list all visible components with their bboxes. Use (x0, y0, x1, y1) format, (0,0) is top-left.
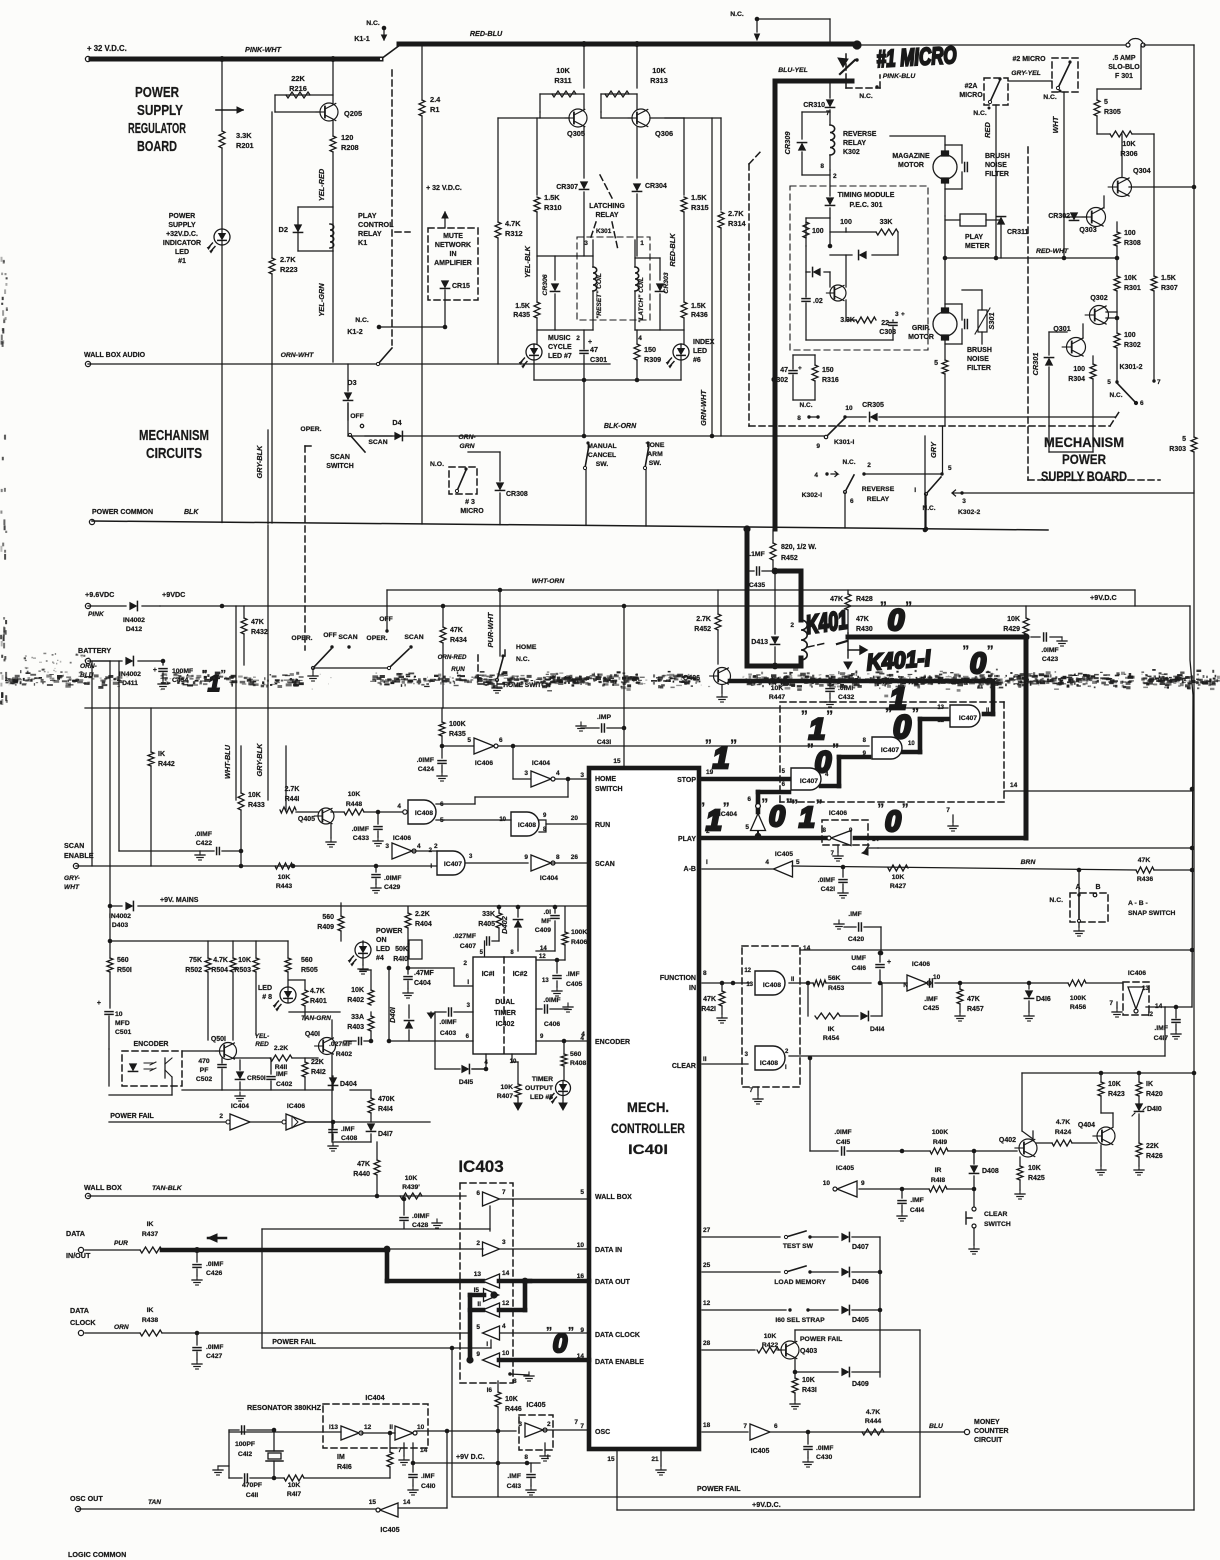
svg-text:2.7K: 2.7K (728, 209, 744, 218)
svg-text:10K: 10K (1108, 1081, 1121, 1088)
resonator xtal (266, 1450, 283, 1452)
svg-text:C4I7: C4I7 (1154, 1035, 1169, 1042)
svg-text:DATA: DATA (66, 1229, 85, 1238)
svg-text:OPER.: OPER. (291, 635, 312, 642)
transistor Q205 (320, 103, 338, 121)
svg-text:.1MF: .1MF (749, 551, 764, 558)
svg-text:470PF: 470PF (242, 1482, 262, 1489)
svg-text:CR309: CR309 (783, 131, 792, 155)
resistor R502 (207, 941, 209, 958)
svg-text:150: 150 (644, 345, 656, 354)
svg-text:IM: IM (337, 1454, 345, 1461)
wire (221, 148, 223, 229)
svg-text:7: 7 (580, 1423, 584, 1430)
svg-text:14: 14 (803, 945, 811, 952)
svg-text:14: 14 (403, 1499, 411, 1506)
svg-text:SUPPLY: SUPPLY (168, 222, 196, 229)
svg-text:”: ” (987, 642, 994, 658)
wire coil bottoms (537, 329, 593, 331)
svg-text:5: 5 (1107, 379, 1111, 386)
wire 160 sel row (702, 1309, 786, 1311)
svg-text:CANCEL: CANCEL (588, 452, 616, 459)
diode D414 (860, 1011, 868, 1020)
svg-text:100: 100 (1073, 366, 1085, 373)
svg-text:R305: R305 (1104, 109, 1121, 116)
svg-text:BLU: BLU (929, 1423, 944, 1430)
resistor R501 (108, 904, 113, 909)
svg-text:10K: 10K (802, 1377, 815, 1384)
resistor R431 (794, 1372, 796, 1378)
svg-text:R446: R446 (505, 1406, 522, 1413)
resistor R505 (287, 941, 289, 958)
svg-text:”: ” (880, 599, 887, 615)
svg-text:0: 0 (888, 604, 905, 637)
svg-text:OFF: OFF (379, 616, 393, 623)
svg-text:33K: 33K (482, 911, 495, 918)
svg-text:2: 2 (790, 622, 794, 629)
svg-text:#2 MICRO: #2 MICRO (1012, 56, 1046, 63)
svg-text:R311: R311 (554, 76, 571, 85)
svg-text:.0IMF: .0IMF (412, 1213, 429, 1220)
svg-text:II: II (477, 1301, 481, 1308)
svg-text:RUN: RUN (595, 822, 610, 829)
svg-text:47K: 47K (830, 596, 843, 603)
svg-text:0: 0 (885, 806, 901, 838)
svg-text:470: 470 (198, 1058, 210, 1065)
svg-text:47K: 47K (856, 616, 869, 623)
svg-text:+9V.D.C.: +9V.D.C. (752, 1500, 781, 1509)
cap C432 (827, 678, 833, 684)
diode CR308 (495, 482, 504, 490)
svg-text:II: II (389, 1424, 393, 1431)
svg-text:.IMF: .IMF (507, 1473, 521, 1480)
svg-text:C403: C403 (440, 1030, 456, 1037)
svg-text:N.C.: N.C. (355, 317, 369, 324)
svg-text:.IMF: .IMF (924, 996, 938, 1003)
svg-text:1.5K: 1.5K (691, 193, 707, 202)
svg-text:CYCLE: CYCLE (548, 344, 572, 351)
svg-text:GRY-: GRY- (64, 875, 80, 882)
svg-text:OPER.: OPER. (300, 426, 321, 433)
wire thick right bus (1024, 637, 1029, 838)
svg-text:MOTOR: MOTOR (898, 162, 924, 169)
svg-text:C303: C303 (879, 329, 896, 336)
svg-text:IC406: IC406 (1128, 970, 1146, 977)
svg-text:MANUAL: MANUAL (587, 443, 616, 450)
svg-text:22K: 22K (311, 1059, 324, 1066)
dashed box IC404 res (323, 1404, 428, 1448)
svg-text:R405: R405 (478, 921, 495, 928)
svg-text:.5 AMP: .5 AMP (1112, 55, 1135, 62)
resistor R301 (1116, 258, 1118, 276)
svg-text:C502: C502 (196, 1076, 212, 1083)
svg-text:IN: IN (689, 985, 696, 992)
svg-text:3: 3 (524, 770, 528, 777)
svg-text:CIRCUITS: CIRCUITS (146, 446, 202, 462)
svg-text:METER: METER (965, 243, 990, 250)
svg-text:LATCHING: LATCHING (589, 203, 625, 210)
wire PUR-WHT (499, 590, 501, 656)
relay K1 coil (332, 224, 334, 251)
svg-text:1.5K: 1.5K (1161, 275, 1176, 282)
svg-text:R408: R408 (570, 1060, 586, 1067)
svg-text:10: 10 (502, 1350, 510, 1357)
cap C410 (411, 1461, 416, 1466)
svg-text:CIRCUIT: CIRCUIT (974, 1437, 1003, 1444)
svg-text:R42I: R42I (701, 1006, 716, 1013)
svg-text:GRIP.: GRIP. (912, 325, 930, 332)
svg-text:C429: C429 (384, 884, 400, 891)
wire clear to c415 (809, 1058, 811, 1151)
resistor R443 (275, 863, 293, 869)
svg-text:N.C.: N.C. (843, 459, 856, 466)
resistor R457 (958, 981, 963, 986)
svg-text:IK: IK (147, 1307, 154, 1314)
svg-text:10: 10 (908, 741, 915, 747)
svg-text:R223: R223 (280, 265, 298, 274)
svg-text:.IMF: .IMF (848, 911, 862, 918)
svg-text:IC#I: IC#I (482, 971, 495, 978)
wire encoder out (171, 1077, 173, 1095)
svg-text:PINK-WHT: PINK-WHT (245, 45, 282, 54)
svg-text:100K: 100K (932, 1129, 948, 1136)
wire YEL-GRN (332, 251, 334, 362)
svg-text:5: 5 (796, 859, 800, 866)
svg-text:IC405: IC405 (836, 1165, 854, 1172)
wire thick Q406 row (730, 679, 993, 684)
svg-text:10K: 10K (248, 792, 261, 799)
svg-text:MONEY: MONEY (974, 1419, 1000, 1426)
svg-text:R50I: R50I (117, 967, 132, 974)
buffer data in (483, 1242, 500, 1256)
wire dashed relay link (391, 70, 393, 345)
svg-text:IC404: IC404 (365, 1393, 384, 1402)
svg-text:IC408: IC408 (415, 810, 433, 817)
svg-text:2: 2 (434, 843, 438, 850)
switch #2 micro (1052, 58, 1078, 92)
svg-text:5: 5 (934, 360, 938, 367)
svg-text:D402: D402 (500, 915, 509, 934)
svg-text:R432: R432 (251, 629, 268, 636)
svg-text:”: ” (816, 796, 823, 812)
svg-text:10K: 10K (351, 987, 364, 994)
cap C423 (1031, 636, 1040, 638)
svg-text:.0IMF: .0IMF (834, 1129, 851, 1136)
wire R201 feed (221, 59, 223, 131)
wire relay to timing (829, 170, 831, 196)
resistor R448 (331, 811, 344, 813)
svg-text:CR303: CR303 (663, 272, 670, 293)
diode D403 (110, 905, 122, 907)
svg-text:.IMF: .IMF (910, 1197, 924, 1204)
svg-text:D4I0: D4I0 (1147, 1106, 1162, 1113)
svg-text:2.7K: 2.7K (280, 255, 296, 264)
svg-text:ENCODER: ENCODER (595, 1039, 630, 1046)
svg-text:12: 12 (364, 1424, 372, 1431)
svg-text:IK: IK (828, 1026, 835, 1033)
diode D416 (1027, 981, 1032, 986)
svg-text:POWER: POWER (376, 928, 402, 935)
svg-text:2: 2 (576, 335, 580, 342)
svg-text:C402: C402 (276, 1081, 292, 1088)
buffer data clock (483, 1326, 500, 1340)
diode CR311 (996, 217, 1005, 225)
wire run (436, 819, 444, 821)
svg-text:IC402: IC402 (496, 1021, 515, 1028)
svg-text:100K: 100K (571, 929, 587, 936)
svg-text:19: 19 (706, 769, 714, 776)
wire function row (702, 982, 750, 984)
svg-text:4: 4 (638, 335, 642, 342)
wire wall box row (88, 1195, 466, 1197)
wire q401 down (331, 1076, 333, 1142)
svg-text:YEL-RED: YEL-RED (317, 168, 326, 201)
svg-text:2.4: 2.4 (430, 95, 441, 104)
wire power common (92, 521, 1048, 530)
svg-text:.IMF: .IMF (341, 1126, 355, 1133)
wire thick staircase 2 (821, 784, 839, 789)
svg-text:560: 560 (322, 914, 334, 921)
svg-text:15: 15 (369, 1499, 377, 1506)
resistor R503 (255, 941, 257, 958)
led LED7 music cycle (526, 344, 542, 360)
svg-text:CR304: CR304 (645, 183, 667, 190)
resistor R304 (1092, 356, 1094, 364)
svg-text:REVERSE: REVERSE (862, 486, 895, 493)
svg-text:TIMER: TIMER (494, 1010, 516, 1017)
resistor R314 (720, 118, 722, 210)
svg-text:10K: 10K (1007, 616, 1020, 623)
svg-text:DATA IN: DATA IN (595, 1247, 622, 1254)
svg-text:13: 13 (937, 705, 944, 711)
svg-text:+ 32 V.D.C.: + 32 V.D.C. (426, 185, 462, 192)
svg-text:15: 15 (607, 1456, 615, 1463)
svg-text:1: 1 (799, 802, 815, 834)
ic dual timer IC402 (473, 957, 536, 1054)
svg-text:C425: C425 (923, 1005, 939, 1012)
svg-text:9: 9 (861, 1180, 865, 1187)
wire top right corner (1144, 44, 1194, 46)
svg-text:RED-BLK: RED-BLK (668, 233, 677, 267)
svg-text:IC404: IC404 (532, 760, 550, 767)
svg-text:R420: R420 (1146, 1091, 1163, 1098)
svg-text:47K: 47K (450, 627, 463, 634)
svg-text:PLAY: PLAY (358, 211, 377, 220)
transistor Q501 (220, 1043, 237, 1060)
svg-text:2: 2 (476, 1240, 480, 1247)
svg-text:R505: R505 (301, 967, 318, 974)
cap C429 (375, 866, 377, 872)
resistor R402b (368, 990, 374, 1005)
svg-text:P.E.C. 301: P.E.C. 301 (850, 202, 883, 209)
svg-text:A: A (1075, 884, 1080, 891)
svg-text:R306: R306 (1120, 149, 1137, 158)
svg-text:R427: R427 (890, 883, 906, 890)
svg-text:+9.6VDC: +9.6VDC (85, 590, 114, 599)
mute network box (428, 228, 478, 300)
transistor Q402 (1019, 1139, 1037, 1157)
node +9.6VDC (85, 603, 90, 608)
svg-text:TAN-BLK: TAN-BLK (152, 1185, 183, 1192)
svg-text:GRN: GRN (459, 443, 475, 450)
svg-text:820, 1/2 W.: 820, 1/2 W. (781, 544, 816, 551)
svg-text:IC404: IC404 (231, 1103, 249, 1110)
resistor R435b (536, 212, 538, 302)
resistor R456 (1068, 980, 1086, 986)
svg-text:C4I3: C4I3 (507, 1483, 522, 1490)
resistor R420 (1138, 1073, 1140, 1082)
svg-text:MECH.: MECH. (627, 1100, 669, 1115)
wire encoder pin4 row (536, 1040, 589, 1042)
svg-text:OUTPUT: OUTPUT (525, 1085, 554, 1092)
svg-text:GRY: GRY (929, 441, 938, 458)
transistor Q306 (632, 109, 650, 127)
svg-text:REGULATOR: REGULATOR (128, 121, 186, 137)
svg-text:C4I6: C4I6 (852, 965, 867, 972)
gate IC408-d (755, 1046, 785, 1070)
svg-text:POWER FAIL: POWER FAIL (272, 1339, 316, 1346)
resistor R504 (232, 941, 234, 958)
svg-text:IC408: IC408 (763, 982, 781, 989)
svg-text:MFD: MFD (115, 1020, 130, 1027)
svg-text:HOME: HOME (595, 776, 616, 783)
resistor R421 (721, 983, 723, 991)
svg-text:R313: R313 (650, 76, 668, 85)
buffer wallbox (483, 1192, 500, 1206)
wire led bottom bus (534, 379, 681, 381)
resistor R433 (240, 746, 242, 793)
svg-text:LED: LED (175, 249, 189, 256)
svg-text:1: 1 (640, 240, 644, 247)
svg-text:WALL BOX: WALL BOX (595, 1194, 632, 1201)
svg-text:”: ” (807, 741, 814, 757)
svg-text:13: 13 (542, 978, 549, 984)
svg-text:IC405: IC405 (380, 1525, 399, 1534)
svg-text:R302: R302 (1124, 342, 1141, 349)
wire load memory row (702, 1271, 780, 1273)
svg-text:C426: C426 (206, 1270, 222, 1277)
wire fuse drop (1140, 45, 1142, 89)
svg-text:RELAY: RELAY (595, 212, 618, 219)
arrow data (208, 1237, 226, 1240)
diode CR15 (440, 280, 449, 288)
svg-text:Q305: Q305 (567, 129, 585, 138)
buffer res1 (341, 1426, 359, 1440)
svg-text:PINK: PINK (88, 611, 105, 618)
svg-text:ENABLE: ENABLE (64, 851, 94, 860)
svg-text:R454: R454 (823, 1035, 839, 1042)
gate IC408-b (511, 812, 539, 836)
diode D2 (298, 206, 333, 208)
svg-text:LOAD MEMORY: LOAD MEMORY (774, 1279, 826, 1286)
svg-text:10K: 10K (405, 1175, 418, 1182)
wire thick play row (702, 836, 828, 841)
svg-text:YEL-BLK: YEL-BLK (523, 245, 532, 278)
svg-text:33A: 33A (351, 1014, 364, 1021)
wire thick data route (385, 1250, 390, 1281)
svg-text:.0IMF: .0IMF (384, 875, 401, 882)
svg-text:D408: D408 (982, 1168, 999, 1175)
svg-text:FUNCTION: FUNCTION (660, 975, 696, 982)
cap C425 (927, 982, 929, 984)
svg-text:8: 8 (556, 854, 560, 861)
svg-text:K302: K302 (843, 149, 860, 156)
resistor R416 (389, 1433, 391, 1452)
svg-text:BRN: BRN (1021, 859, 1037, 866)
svg-text:10: 10 (845, 405, 853, 412)
svg-text:R452: R452 (694, 626, 711, 633)
resistor R405 (498, 907, 500, 913)
svg-text:K301: K301 (596, 228, 612, 235)
svg-text:MICRO: MICRO (460, 508, 484, 515)
svg-text:10K: 10K (238, 957, 251, 964)
svg-text:SUPPLY BOARD: SUPPLY BOARD (1041, 469, 1127, 484)
svg-text:II: II (986, 708, 990, 714)
svg-text:PUR: PUR (114, 1240, 128, 1247)
svg-text:20: 20 (571, 815, 579, 822)
svg-text:MECHANISM: MECHANISM (139, 428, 209, 444)
svg-text:27: 27 (703, 1227, 711, 1234)
resistor R302 (1116, 318, 1118, 333)
svg-text:.0IMF: .0IMF (417, 757, 434, 764)
wire left rail 1 (118, 661, 120, 851)
svg-text:3: 3 (895, 311, 899, 318)
svg-text:2.7K: 2.7K (696, 616, 711, 623)
svg-text:8: 8 (797, 415, 801, 422)
svg-text:150: 150 (822, 367, 834, 374)
buffer res2 (395, 1426, 413, 1440)
resistor R454 loop (807, 983, 809, 1016)
diode D412 (88, 605, 126, 607)
svg-text:MAGAZINE: MAGAZINE (892, 153, 930, 160)
svg-text:.0IMF: .0IMF (439, 1019, 456, 1026)
svg-text:R401: R401 (310, 998, 327, 1005)
svg-text:10: 10 (823, 1180, 831, 1187)
svg-text:II: II (703, 1056, 707, 1063)
svg-text:100: 100 (840, 219, 852, 226)
svg-text:N.C.: N.C. (1049, 897, 1063, 904)
svg-text:UMF: UMF (851, 955, 866, 962)
svg-text:CR50I: CR50I (247, 1075, 266, 1082)
svg-text:C4II: C4II (246, 1492, 259, 1499)
svg-text:2: 2 (219, 1113, 223, 1120)
svg-text:.0IMF: .0IMF (206, 1261, 223, 1268)
svg-text:50K: 50K (395, 946, 408, 953)
svg-text:SCAN: SCAN (338, 634, 357, 641)
svg-text:NOISE: NOISE (967, 356, 989, 363)
resistor R419 (930, 1148, 948, 1154)
wire thick staircase 1 (903, 750, 920, 755)
svg-text:WHT-BLU: WHT-BLU (223, 744, 232, 779)
wire ic404 in (512, 746, 514, 779)
svg-text:C4I0: C4I0 (421, 1483, 436, 1490)
transistor Q405 (318, 808, 334, 824)
svg-text:75K: 75K (189, 957, 202, 964)
svg-text:IC406: IC406 (475, 760, 493, 767)
svg-text:.0IMF: .0IMF (816, 1445, 833, 1452)
svg-text:0: 0 (553, 1328, 568, 1358)
svg-text:ON: ON (376, 937, 387, 944)
svg-text:CLOCK: CLOCK (70, 1318, 96, 1327)
diode CR303 (635, 257, 660, 259)
svg-text:IC404: IC404 (540, 875, 558, 882)
svg-text:C4I4: C4I4 (910, 1207, 925, 1214)
svg-text:2.2K: 2.2K (415, 911, 430, 918)
svg-text:R434: R434 (450, 637, 467, 644)
svg-text:TEST SW: TEST SW (783, 1243, 814, 1250)
svg-text:18: 18 (703, 1422, 711, 1429)
svg-text:10K: 10K (652, 66, 666, 75)
